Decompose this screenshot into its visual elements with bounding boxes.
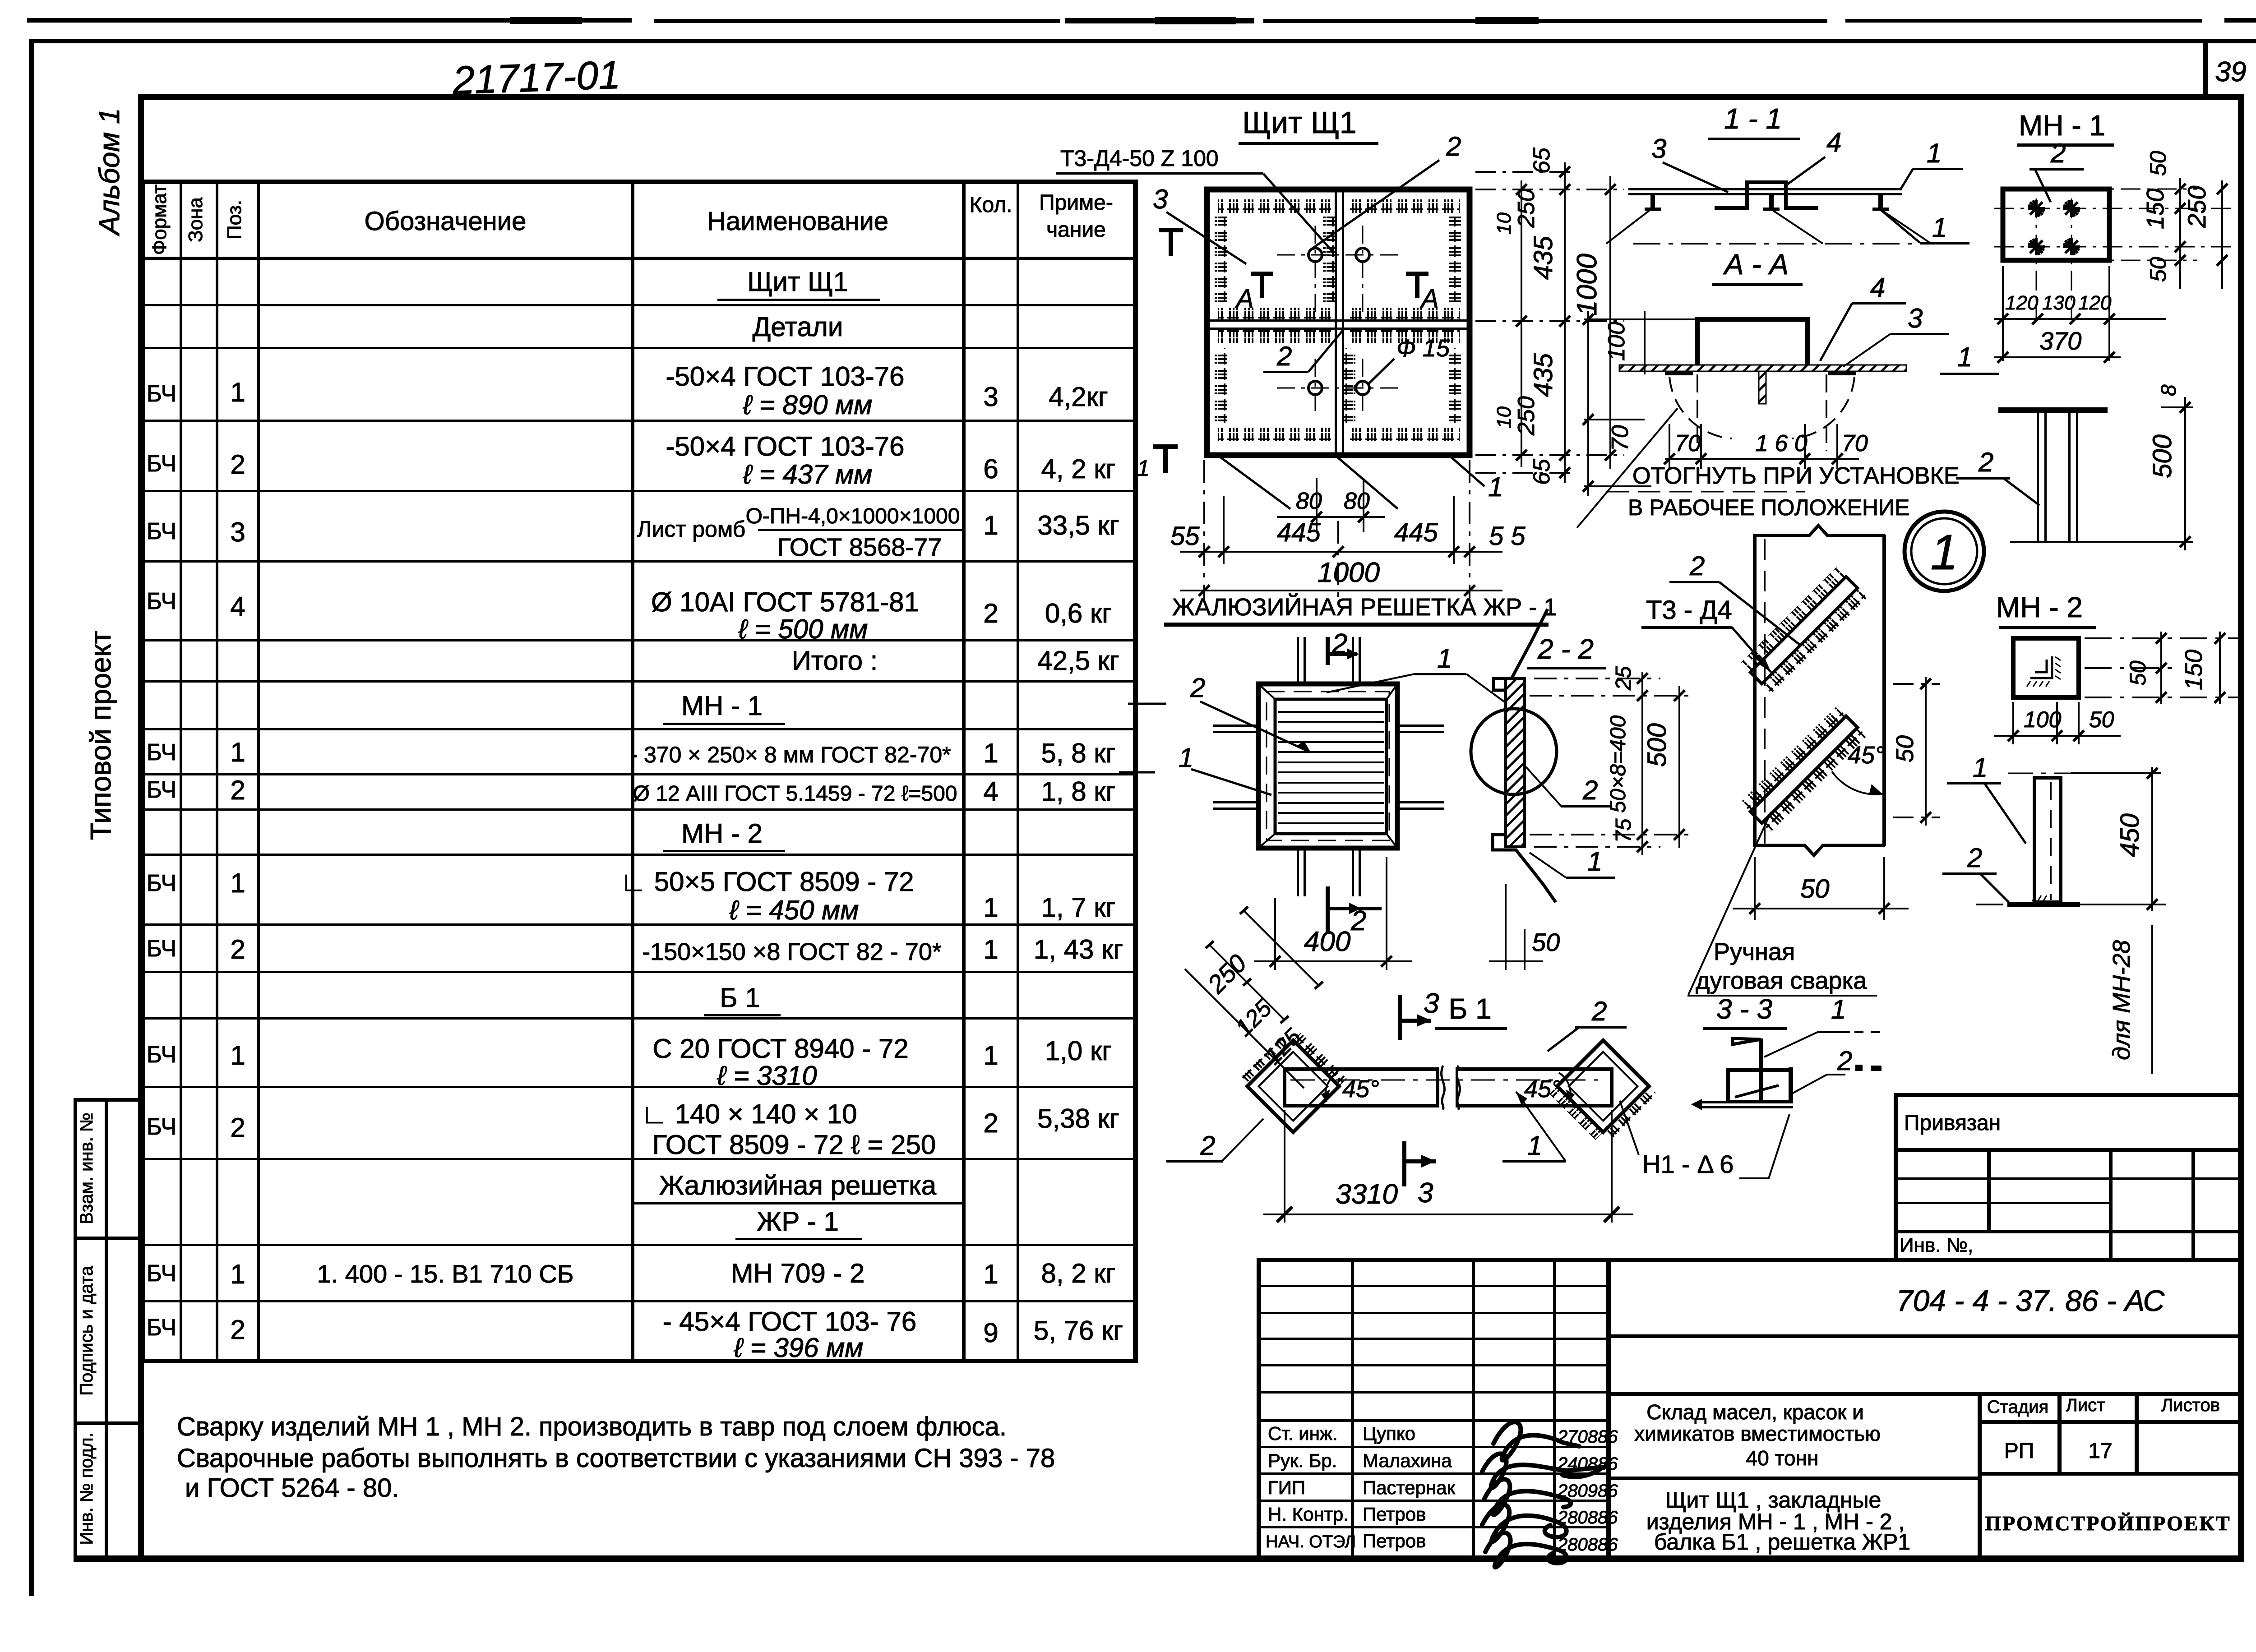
section mark 3 bottom xyxy=(1402,1141,1406,1186)
svg-text:ЖР - 1: ЖР - 1 xyxy=(757,1206,839,1237)
svg-text:2: 2 xyxy=(983,598,998,628)
svg-text:БЧ: БЧ xyxy=(147,588,176,614)
svg-text:Рук. Бр.: Рук. Бр. xyxy=(1268,1450,1337,1471)
svg-text:Подпись и дата: Подпись и дата xyxy=(77,1265,97,1395)
total 1000 xyxy=(1180,590,1502,591)
svg-text:5 5: 5 5 xyxy=(1489,521,1526,551)
svg-text:2: 2 xyxy=(230,449,245,480)
svg-text:Склад масел, красок и: Склад масел, красок и xyxy=(1646,1400,1864,1424)
right dim chains xyxy=(1475,162,1624,483)
bottom dim 80|80 xyxy=(1277,478,1385,532)
svg-text:130: 130 xyxy=(2042,292,2076,314)
450 dim xyxy=(2071,767,2166,911)
dashed inner line xyxy=(1267,692,1389,840)
node circle 1 xyxy=(1905,512,1984,591)
svg-text:А - А: А - А xyxy=(1723,248,1789,281)
svg-text:0,6 кг: 0,6 кг xyxy=(1045,598,1112,628)
lower T-beam section xyxy=(1998,407,2108,413)
svg-text:МН 709 - 2: МН 709 - 2 xyxy=(731,1258,865,1288)
svg-text:дуговая сварка: дуговая сварка xyxy=(1696,967,1867,994)
svg-text:2: 2 xyxy=(1689,551,1705,581)
svg-text:2: 2 xyxy=(1837,1046,1852,1076)
svg-text:4: 4 xyxy=(1870,272,1885,303)
svg-text:2: 2 xyxy=(1978,447,1993,477)
svg-text:2 - 2: 2 - 2 xyxy=(1537,634,1594,665)
svg-text:40 тонн: 40 тонн xyxy=(1746,1446,1819,1470)
outer top line xyxy=(1257,1258,2244,1262)
panel edges xyxy=(1753,535,1757,846)
svg-text:Пастернак: Пастернак xyxy=(1363,1477,1456,1498)
T weld symbols left of panel xyxy=(1159,228,1183,232)
outer and inner frame xyxy=(1258,684,1397,848)
bolt xyxy=(1759,371,1766,404)
svg-text:Обозначение: Обозначение xyxy=(365,207,527,236)
svg-text:Детали: Детали xyxy=(753,312,843,342)
svg-text:250: 250 xyxy=(1513,396,1539,436)
signatures squiggles xyxy=(1482,1422,1603,1567)
svg-text:- 370 × 250× 8 мм ГОСТ 82-7: - 370 × 250× 8 мм ГОСТ 82-70* xyxy=(630,742,951,767)
svg-text:С 20 ГОСТ 8940 - 72: С 20 ГОСТ 8940 - 72 xyxy=(652,1034,908,1064)
svg-text:балка Б1 , решетка ЖР1: балка Б1 , решетка ЖР1 xyxy=(1654,1529,1910,1555)
svg-text:1: 1 xyxy=(983,510,998,540)
svg-text:125: 125 xyxy=(1230,995,1277,1041)
svg-text:2: 2 xyxy=(1967,843,1982,873)
svg-text:Поз.: Поз. xyxy=(223,200,245,240)
dashdot rows xyxy=(1994,189,2233,318)
svg-text:и ГОСТ 5264 - 80.: и ГОСТ 5264 - 80. xyxy=(185,1473,399,1503)
400 dim xyxy=(1254,857,1412,970)
svg-text:5, 76 кг: 5, 76 кг xyxy=(1034,1315,1123,1346)
svg-text:435: 435 xyxy=(1529,235,1558,280)
svg-text:∟ 50×5 ГОСТ 8509 - 72: ∟ 50×5 ГОСТ 8509 - 72 xyxy=(620,867,914,897)
svg-text:50: 50 xyxy=(1800,874,1830,904)
section 2 marks xyxy=(1326,637,1330,665)
svg-text:Малахина: Малахина xyxy=(1363,1450,1452,1471)
svg-text:Привязан: Привязан xyxy=(1904,1111,2001,1135)
svg-text:ПРОМСТРОЙПРОЕКТ: ПРОМСТРОЙПРОЕКТ xyxy=(1985,1512,2231,1535)
svg-text:Наименование: Наименование xyxy=(707,207,888,236)
svg-text:280886: 280886 xyxy=(1557,1535,1618,1555)
svg-text:БЧ: БЧ xyxy=(147,1042,176,1068)
panel outline xyxy=(1207,189,1470,455)
svg-text:1: 1 xyxy=(230,868,245,898)
svg-text:2: 2 xyxy=(1200,1131,1215,1161)
svg-text:Т3 - Д4: Т3 - Д4 xyxy=(1646,595,1732,625)
svg-text:4: 4 xyxy=(1826,127,1841,157)
svg-text:1: 1 xyxy=(983,1040,998,1071)
svg-text:ГОСТ 8509 - 72 ℓ = 250: ГОСТ 8509 - 72 ℓ = 250 xyxy=(652,1130,936,1160)
svg-text:445: 445 xyxy=(1277,518,1321,547)
svg-text:5,38 кг: 5,38 кг xyxy=(1037,1103,1119,1134)
side tabs xyxy=(1665,371,1693,375)
svg-text:БЧ: БЧ xyxy=(147,381,176,407)
svg-text:Ручная: Ручная xyxy=(1714,938,1795,965)
svg-text:ОТОГНУТЬ ПРИ УСТАНОВКЕ: ОТОГНУТЬ ПРИ УСТАНОВКЕ xyxy=(1632,463,1960,489)
mid battens xyxy=(1209,319,1468,322)
horizontals xyxy=(140,180,1138,184)
right dims xyxy=(2180,178,2222,289)
dims right xyxy=(1530,672,1694,855)
svg-text:10: 10 xyxy=(1493,212,1515,235)
svg-text:Б 1: Б 1 xyxy=(720,983,760,1013)
svg-text:1: 1 xyxy=(1973,752,1988,783)
svg-text:МН - 2: МН - 2 xyxy=(681,818,763,849)
right part verticals xyxy=(1978,1392,1982,1560)
svg-text:1, 8 кг: 1, 8 кг xyxy=(1041,776,1116,807)
svg-text:1: 1 xyxy=(230,377,245,407)
svg-text:2: 2 xyxy=(1331,628,1347,660)
svg-text:8: 8 xyxy=(2157,384,2180,396)
svg-text:БЧ: БЧ xyxy=(147,518,176,545)
channel box xyxy=(1728,1070,1791,1102)
svg-text:Взам. инв. №: Взам. инв. № xyxy=(77,1112,97,1224)
svg-text:1: 1 xyxy=(983,892,998,923)
svg-text:1, 43 кг: 1, 43 кг xyxy=(1034,934,1123,964)
svg-text:2: 2 xyxy=(1350,905,1366,937)
svg-text:704 - 4 - 37. 86 - АС: 704 - 4 - 37. 86 - АС xyxy=(1896,1284,2165,1317)
svg-text:1, 7 кг: 1, 7 кг xyxy=(1041,892,1116,923)
svg-text:100: 100 xyxy=(2024,707,2062,732)
svg-text:2: 2 xyxy=(1276,341,1292,371)
dims bottom xyxy=(1994,702,2121,744)
svg-text:4, 2 кг: 4, 2 кг xyxy=(1041,454,1116,484)
svg-text:2: 2 xyxy=(2050,138,2066,168)
svg-text:435: 435 xyxy=(1529,353,1558,397)
detail circle xyxy=(1471,709,1557,794)
lower post xyxy=(2034,778,2061,902)
svg-text:100: 100 xyxy=(1604,322,1630,361)
svg-text:Петров: Петров xyxy=(1363,1504,1426,1525)
svg-text:75: 75 xyxy=(1612,818,1636,843)
dims xyxy=(1584,311,1859,496)
top angle flange xyxy=(1733,1038,1761,1044)
svg-text:Ø 10АI ГОСТ 5781-81: Ø 10АI ГОСТ 5781-81 xyxy=(651,587,919,617)
svg-text:ℓ = 3310: ℓ = 3310 xyxy=(717,1061,817,1091)
left diamond end plate xyxy=(1239,1025,1347,1132)
svg-text:240886: 240886 xyxy=(1557,1454,1618,1474)
svg-text:50: 50 xyxy=(2125,660,2150,686)
svg-text:150: 150 xyxy=(2142,189,2169,229)
svg-text:ℓ = 437 мм: ℓ = 437 мм xyxy=(743,459,873,489)
svg-text:Б 1: Б 1 xyxy=(1448,992,1491,1025)
svg-text:Н. Контр.: Н. Контр. xyxy=(1268,1504,1349,1525)
svg-text:1: 1 xyxy=(1179,743,1193,773)
svg-text:Ø 12 АIII ГОСТ 5.1459 - 72 ℓ=5: Ø 12 АIII ГОСТ 5.1459 - 72 ℓ=500 xyxy=(633,782,957,806)
svg-text:70: 70 xyxy=(1607,425,1633,451)
svg-text:1: 1 xyxy=(983,934,998,964)
svg-text:33,5 кг: 33,5 кг xyxy=(1037,510,1119,540)
pins xyxy=(1213,637,1444,896)
svg-text:8, 2 кг: 8, 2 кг xyxy=(1041,1258,1116,1288)
svg-text:50: 50 xyxy=(1891,735,1919,762)
chain 55 445 445 55 xyxy=(1204,460,1470,600)
hat profile xyxy=(1697,319,1808,365)
svg-text:РП: РП xyxy=(2004,1439,2034,1463)
svg-text:500: 500 xyxy=(2148,434,2177,478)
svg-text:80: 80 xyxy=(1344,488,1370,514)
svg-text:химикатов вместимостью: химикатов вместимостью xyxy=(1634,1422,1881,1445)
svg-text:Инв. № подл.: Инв. № подл. xyxy=(77,1432,97,1545)
svg-text:БЧ: БЧ xyxy=(147,870,176,896)
svg-text:280886: 280886 xyxy=(1557,1508,1618,1527)
svg-text:Формат: Формат xyxy=(148,185,171,255)
svg-text:3 - 3: 3 - 3 xyxy=(1716,994,1772,1025)
svg-text:45°: 45° xyxy=(1342,1075,1379,1103)
svg-text:Ст. инж.: Ст. инж. xyxy=(1268,1423,1338,1444)
svg-text:1: 1 xyxy=(1957,342,1972,372)
svg-text:3: 3 xyxy=(1418,1177,1433,1209)
svg-text:чание: чание xyxy=(1046,218,1106,242)
svg-text:42,5 кг: 42,5 кг xyxy=(1037,646,1119,676)
svg-text:1: 1 xyxy=(983,1259,998,1289)
svg-text:17: 17 xyxy=(2088,1439,2112,1463)
svg-text:9: 9 xyxy=(983,1318,998,1348)
svg-text:Щит Щ1: Щит Щ1 xyxy=(747,267,848,297)
plate hatched xyxy=(1619,365,1906,371)
corner angle inside xyxy=(2030,656,2052,678)
dim ticks (45deg slashes) xyxy=(1199,512,1475,596)
svg-text:Н1 - Δ 6: Н1 - Δ 6 xyxy=(1642,1150,1734,1178)
svg-text:1: 1 xyxy=(230,1259,245,1289)
3310 dim xyxy=(1263,1110,1633,1223)
table header texts xyxy=(148,185,1113,255)
svg-text:120: 120 xyxy=(2078,292,2112,314)
svg-text:2: 2 xyxy=(1190,673,1205,703)
svg-text:150: 150 xyxy=(2180,650,2207,690)
svg-text:Стадия: Стадия xyxy=(1987,1397,2048,1417)
svg-text:1. 400 - 15. В1 710 СБ: 1. 400 - 15. В1 710 СБ xyxy=(317,1260,573,1288)
svg-text:НАЧ. ОТЭЛ: НАЧ. ОТЭЛ xyxy=(1266,1532,1356,1551)
stage/sheet xyxy=(1987,1395,2220,1417)
svg-text:для МН-28: для МН-28 xyxy=(2108,940,2135,1060)
svg-text:65: 65 xyxy=(1529,147,1555,174)
svg-text:50: 50 xyxy=(2145,257,2171,282)
svg-text:370: 370 xyxy=(2039,327,2081,355)
svg-text:3310: 3310 xyxy=(1336,1179,1398,1210)
section mark 3 top xyxy=(1398,995,1402,1040)
svg-text:1: 1 xyxy=(1527,1131,1542,1161)
dims right xyxy=(2085,632,2238,704)
svg-text:Кол.: Кол. xyxy=(970,193,1012,217)
svg-text:70: 70 xyxy=(1675,430,1701,457)
svg-text:Цупко: Цупко xyxy=(1363,1423,1415,1444)
svg-text:55: 55 xyxy=(1170,521,1200,551)
svg-text:250: 250 xyxy=(1202,949,1252,999)
svg-text:- 45×4 ГОСТ 103- 76: - 45×4 ГОСТ 103- 76 xyxy=(663,1306,916,1337)
svg-text:2: 2 xyxy=(230,775,245,805)
svg-text:ℓ = 450 мм: ℓ = 450 мм xyxy=(729,895,859,925)
svg-text:250: 250 xyxy=(2182,186,2211,228)
louvres xyxy=(1278,712,1384,823)
svg-text:250: 250 xyxy=(1513,189,1539,228)
table body xyxy=(147,267,1123,1363)
dashed bend arcs xyxy=(1669,377,1732,438)
svg-text:3: 3 xyxy=(1908,303,1923,333)
svg-text:ГИП: ГИП xyxy=(1268,1477,1305,1498)
svg-text:45°: 45° xyxy=(1848,742,1885,769)
svg-text:2: 2 xyxy=(1591,996,1607,1026)
svg-text:О-ПН-4,0×1000×1000: О-ПН-4,0×1000×1000 xyxy=(746,504,960,528)
svg-text:6: 6 xyxy=(983,454,998,484)
svg-text:3: 3 xyxy=(1424,988,1439,1019)
verticals xyxy=(140,180,145,1361)
svg-text:1000: 1000 xyxy=(1318,557,1380,588)
svg-text:1: 1 xyxy=(1137,456,1150,481)
svg-text:МН - 1: МН - 1 xyxy=(2019,109,2105,142)
diagonal dims 250 / 125 125 xyxy=(1185,910,1318,1088)
svg-text:-50×4 ГОСТ 103-76: -50×4 ГОСТ 103-76 xyxy=(666,431,904,461)
svg-text:5, 8 кг: 5, 8 кг xyxy=(1041,738,1116,768)
signature rows xyxy=(1257,1285,1611,1287)
svg-text:1: 1 xyxy=(1930,525,1958,580)
diagonal bar 2 xyxy=(1741,706,1867,833)
svg-text:МН - 1: МН - 1 xyxy=(681,691,763,721)
svg-text:Сварку изделий МН 1 , МН 2.: Сварку изделий МН 1 , МН 2. производить … xyxy=(177,1412,1007,1441)
svg-text:Щит Щ1: Щит Щ1 xyxy=(1242,106,1356,140)
svg-text:21717-01: 21717-01 xyxy=(451,52,621,103)
svg-text:БЧ: БЧ xyxy=(147,936,176,962)
svg-text:А: А xyxy=(1235,284,1254,314)
svg-text:1: 1 xyxy=(1927,138,1942,168)
sheet number box 39 xyxy=(2203,42,2246,97)
svg-text:2: 2 xyxy=(230,1315,245,1345)
svg-text:Итого :: Итого : xyxy=(792,646,878,676)
svg-text:ℓ = 890 мм: ℓ = 890 мм xyxy=(743,390,873,420)
svg-text:Лист: Лист xyxy=(2066,1395,2105,1415)
svg-text:1000: 1000 xyxy=(1572,254,1603,316)
top hook xyxy=(1493,641,1532,690)
diagonal bar 1 xyxy=(1741,567,1867,693)
svg-text:1: 1 xyxy=(1488,472,1503,502)
plate xyxy=(1628,188,1902,190)
svg-text:3: 3 xyxy=(1153,184,1168,214)
svg-text:-150×150 ×8 ГОСТ 82 - 70*: -150×150 ×8 ГОСТ 82 - 70* xyxy=(642,938,942,965)
svg-text:Сварочные работы выполнять: Сварочные работы выполнять в соответстви… xyxy=(177,1444,1055,1473)
svg-text:3: 3 xyxy=(230,517,245,547)
mitre corners xyxy=(1258,684,1397,848)
svg-text:1 6 0: 1 6 0 xyxy=(1755,430,1808,457)
svg-text:50×8=400: 50×8=400 xyxy=(1606,715,1630,813)
svg-text:270886: 270886 xyxy=(1557,1427,1618,1447)
svg-text:МН - 2: МН - 2 xyxy=(1996,591,2083,623)
svg-text:Альбом 1: Альбом 1 xyxy=(93,108,125,236)
svg-text:2: 2 xyxy=(983,1108,998,1138)
svg-text:65: 65 xyxy=(1529,458,1555,485)
bottom 50 dim xyxy=(1489,884,1543,970)
svg-text:БЧ: БЧ xyxy=(147,739,176,766)
right 50 dim xyxy=(1893,677,1940,826)
svg-text:БЧ: БЧ xyxy=(147,451,176,477)
svg-text:25: 25 xyxy=(1612,666,1636,691)
svg-text:1: 1 xyxy=(230,1040,245,1071)
holes d15 xyxy=(1308,248,1369,395)
svg-text:1 - 1: 1 - 1 xyxy=(1724,102,1782,135)
svg-text:400: 400 xyxy=(1304,926,1350,957)
svg-text:1: 1 xyxy=(1587,846,1602,877)
svg-text:50: 50 xyxy=(1532,928,1560,956)
bar with hatch xyxy=(1506,678,1525,847)
plate square xyxy=(2013,638,2079,697)
svg-text:70: 70 xyxy=(1842,430,1868,457)
bottom hook xyxy=(1493,835,1543,884)
svg-text:50: 50 xyxy=(2145,151,2171,176)
dates xyxy=(1557,1427,1618,1555)
svg-text:Типовой проект: Типовой проект xyxy=(84,631,117,840)
svg-text:1,0 кг: 1,0 кг xyxy=(1045,1036,1112,1066)
svg-text:50: 50 xyxy=(2089,707,2114,732)
svg-text:Инв. №,: Инв. №, xyxy=(1900,1234,1973,1256)
svg-text:Петров: Петров xyxy=(1363,1530,1426,1551)
svg-text:280986: 280986 xyxy=(1557,1481,1618,1501)
svg-text:Приме-: Приме- xyxy=(1039,191,1113,215)
svg-text:1: 1 xyxy=(1831,994,1846,1024)
project name xyxy=(1634,1400,1881,1470)
signature labels xyxy=(1266,1423,1456,1551)
svg-text:1: 1 xyxy=(1437,643,1452,674)
svg-text:1: 1 xyxy=(1932,212,1947,243)
right part horizontal lines xyxy=(1606,1334,2244,1338)
channel hat xyxy=(1715,182,1818,208)
svg-text:БЧ: БЧ xyxy=(147,1315,176,1341)
svg-text:В РАБОЧЕЕ ПОЛОЖЕНИЕ: В РАБОЧЕЕ ПОЛОЖЕНИЕ xyxy=(1628,495,1909,520)
svg-text:4: 4 xyxy=(983,776,998,807)
left attachment boxes xyxy=(74,1098,77,1559)
svg-text:2: 2 xyxy=(1446,131,1461,162)
inner comb strips xyxy=(1218,199,1331,213)
base plate double line xyxy=(1702,1101,1793,1103)
svg-text:3: 3 xyxy=(983,382,998,412)
svg-text:ЖАЛЮЗИЙНАЯ РЕШЕТКА ЖР -: ЖАЛЮЗИЙНАЯ РЕШЕТКА ЖР - 1 xyxy=(1172,593,1557,621)
svg-text:4: 4 xyxy=(230,591,245,622)
svg-text:2: 2 xyxy=(230,1112,245,1143)
svg-text:1: 1 xyxy=(230,737,245,767)
svg-text:445: 445 xyxy=(1394,518,1438,547)
plate xyxy=(2003,189,2109,260)
svg-text:1: 1 xyxy=(983,738,998,768)
svg-text:4,2кг: 4,2кг xyxy=(1049,382,1108,412)
svg-text:Т3-Д4-50 Z 100: Т3-Д4-50 Z 100 xyxy=(1060,146,1219,171)
svg-text:БЧ: БЧ xyxy=(147,1260,176,1287)
svg-text:ℓ = 500 мм: ℓ = 500 мм xyxy=(738,614,868,644)
bottom 50 dim xyxy=(1733,857,1909,920)
signature table verticals xyxy=(1257,1258,1261,1560)
svg-text:3: 3 xyxy=(1651,134,1666,164)
svg-text:БЧ: БЧ xyxy=(147,1114,176,1140)
svg-text:ℓ = 396 мм: ℓ = 396 мм xyxy=(734,1333,864,1363)
svg-text:Зона: Зона xyxy=(185,197,207,242)
svg-text:2: 2 xyxy=(230,934,245,964)
beam body xyxy=(1285,1069,1438,1106)
svg-text:Жалюзийная решетка: Жалюзийная решетка xyxy=(659,1170,937,1200)
bottom dims xyxy=(1994,266,2166,361)
svg-text:39: 39 xyxy=(2215,56,2247,88)
svg-text:120: 120 xyxy=(2005,292,2039,314)
svg-text:∟ 140 × 140 × 10: ∟ 140 × 140 × 10 xyxy=(641,1099,857,1129)
svg-text:45°: 45° xyxy=(1524,1075,1561,1103)
svg-text:450: 450 xyxy=(2115,813,2145,857)
svg-text:БЧ: БЧ xyxy=(147,777,176,803)
svg-text:-50×4 ГОСТ 103-76: -50×4 ГОСТ 103-76 xyxy=(666,361,904,392)
stem xyxy=(1759,1038,1763,1102)
svg-text:2: 2 xyxy=(1582,775,1598,805)
svg-text:80: 80 xyxy=(1296,488,1322,514)
svg-text:ГОСТ 8568-77: ГОСТ 8568-77 xyxy=(777,533,942,561)
hooks xyxy=(1645,195,1889,211)
svg-text:Ф 15: Ф 15 xyxy=(1396,335,1450,362)
right diamond end plate xyxy=(1549,1040,1657,1148)
svg-text:10: 10 xyxy=(1493,406,1515,429)
svg-text:Лист ромб: Лист ромб xyxy=(637,517,746,542)
